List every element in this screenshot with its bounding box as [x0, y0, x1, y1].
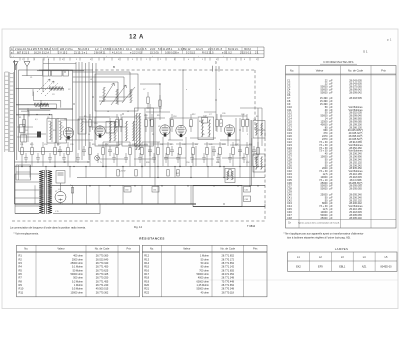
svg-text:28.770.172: 28.770.172 [221, 258, 234, 261]
header table divider [210, 47, 212, 54]
resistor RB11 [157, 148, 160, 155]
svg-text:C1: C1 [30, 77, 32, 79]
svg-text:R9: R9 [19, 283, 23, 287]
power transformer core [44, 170, 46, 214]
IF transformer S2 primary [255, 123, 257, 136]
svg-text:Spires autour de la commutatio: Spires autour de la commutation de l’osc… [298, 221, 340, 224]
svg-text:pF: pF [330, 216, 333, 220]
svg-text:V2: V2 [115, 127, 117, 129]
dial ladder rails [4, 72, 6, 152]
osc coupling arrow 1 [100, 83, 115, 105]
svg-text:9: 9 [256, 59, 257, 61]
svg-text:S2: S2 [199, 121, 201, 123]
resistor RB8 leads [116, 142, 118, 148]
svg-text:9: 9 [132, 59, 133, 61]
resistor RC5 [229, 170, 231, 177]
svg-text:5: 5 [202, 59, 203, 61]
svg-text:C18: C18 [173, 116, 176, 118]
lampes column divider [374, 252, 376, 271]
svg-text:28.770.340: 28.770.340 [96, 262, 109, 265]
padder coil 4 [133, 121, 135, 141]
capacitor CB6 [212, 146, 216, 156]
svg-text:R7: R7 [19, 276, 23, 280]
IF transformer S1 primary [201, 120, 203, 138]
capacitor CB5 [170, 146, 174, 156]
resistor RB18 leads [246, 142, 248, 148]
osc coil winding b [116, 89, 118, 104]
resistor RB1 [21, 148, 24, 155]
svg-text:Valeur: Valeur [183, 247, 190, 251]
svg-text:C61: C61 [153, 190, 156, 192]
resistances table left column divider [117, 245, 119, 296]
svg-text:2 1: 2 1 [255, 52, 259, 55]
svg-text:pF: pF [330, 90, 333, 94]
resistor RB6 [89, 148, 92, 155]
wire route upper 3 [140, 83, 160, 85]
rectifier tube V7 [55, 192, 66, 203]
supply bus y186 [52, 184, 265, 186]
svg-text:No.: No. [150, 247, 154, 251]
svg-text:7a: 7a [70, 185, 72, 187]
svg-text:R35: R35 [216, 162, 219, 164]
transformer secondary winding [48, 171, 52, 214]
resistor RA6 leads [151, 114, 153, 120]
svg-text:2: 2 [34, 59, 35, 61]
svg-text:R18: R18 [144, 276, 149, 280]
header table divider [109, 47, 111, 54]
RF shield box upper [19, 70, 73, 109]
svg-text:LAMPES: LAMPES [335, 247, 349, 251]
svg-text:4: 4 [188, 59, 189, 61]
resistor RB4 [54, 148, 57, 155]
svg-text:4 1,6 1 6: 4 1,6 1 6 [112, 52, 122, 55]
svg-text:No. de Code: No. de Code [95, 247, 110, 251]
svg-text:No. de Code: No. de Code [220, 247, 235, 251]
svg-text:70.770.448: 70.770.448 [221, 280, 234, 283]
IF transformer S3 primary [255, 157, 257, 170]
svg-text:10000 ohm: 10000 ohm [70, 291, 83, 294]
variable coupling dashed arrows [37, 79, 58, 96]
svg-text:R27: R27 [195, 144, 198, 146]
ticks across dashed boundary [212, 66, 219, 72]
svg-text:C62: C62 [245, 190, 248, 192]
resistor RA11 leads [242, 114, 244, 120]
svg-text:50 ohm: 50 ohm [201, 262, 209, 265]
svg-text:R29: R29 [222, 144, 225, 146]
svg-text:R5: R5 [19, 268, 23, 272]
svg-text:500 ohm: 500 ohm [73, 277, 83, 280]
svg-text:Valeur: Valeur [57, 247, 64, 251]
svg-text:5 2 51,5: 5 2 51,5 [186, 52, 196, 55]
svg-text:8045D-00: 8045D-00 [381, 266, 393, 269]
svg-text:S 1: S 1 [363, 50, 368, 54]
svg-text:16,2 K 51,2 A: 16,2 K 51,2 A [34, 52, 49, 55]
svg-text:R15: R15 [144, 265, 149, 269]
header table divider [57, 47, 59, 54]
IF transformer S3 can [253, 154, 265, 172]
resistances table right column divider [161, 245, 163, 296]
svg-text:6: 6 [90, 59, 91, 61]
svg-text:R25: R25 [170, 144, 173, 146]
svg-text:C14: C14 [144, 115, 147, 117]
IF transformer S2 can [253, 121, 265, 139]
svg-text:R13: R13 [144, 257, 149, 261]
resistor RB2 leads [31, 142, 33, 148]
svg-text:28.095.065: 28.095.065 [349, 188, 362, 191]
svg-text:8: 8 [118, 59, 119, 61]
svg-text:6: 6 [216, 59, 217, 61]
svg-text:R19: R19 [92, 144, 95, 146]
resistor RB3 [42, 148, 45, 155]
resistances table right column divider [211, 245, 213, 296]
capacitor CB8 [252, 146, 256, 156]
svg-text:1 Mohm: 1 Mohm [74, 284, 83, 287]
resistor RB15 [206, 148, 209, 155]
junction dot [54, 166, 55, 167]
svg-text:R10: R10 [19, 287, 24, 291]
svg-text:60000 ohm: 60000 ohm [196, 280, 209, 283]
horizontal coil Lb (hatched) [34, 103, 48, 107]
svg-text:* Ne s’applique pas aux appare: * Ne s’applique pas aux appareils ayant … [284, 232, 364, 236]
svg-text:607 E 21 5: 607 E 21 5 [17, 52, 30, 55]
resistor RB15 leads [206, 142, 208, 148]
svg-text:R22: R22 [144, 290, 149, 294]
resistor RA10 leads [220, 114, 222, 120]
top wire to dashed section [39, 69, 90, 71]
svg-text:V4: V4 [189, 126, 191, 128]
svg-text:0,5: 0,5 [202, 134, 205, 136]
resistor RB5 [67, 148, 70, 155]
antenna 1 on border [13, 62, 18, 71]
header spec table frame [10, 46, 264, 48]
resistor RA12 leads [246, 114, 248, 120]
gang riser [42, 59, 44, 93]
svg-text:V1: V1 [62, 127, 64, 129]
header table divider [257, 47, 259, 54]
resistor RB2 [31, 148, 34, 155]
resistor RB18 [246, 148, 249, 155]
wire risers mid-left [75, 62, 77, 162]
dial scale ladder rungs [5, 72, 14, 152]
svg-text:V3: V3 [158, 126, 160, 128]
svg-text:No. de Code: No. de Code [348, 68, 364, 72]
resistor RB10 leads [141, 142, 143, 148]
lampes table frame [288, 252, 398, 271]
resistor RB19 [257, 148, 260, 155]
resistor RA8 [190, 120, 193, 127]
svg-text:40 ohm: 40 ohm [201, 291, 209, 294]
tube V1 envelope [63, 128, 73, 138]
tube V3 grid electrodes [161, 125, 168, 132]
resistor RA3 leads [116, 114, 118, 120]
resistor RB16 [219, 148, 222, 155]
svg-text:T 0844: T 0844 [247, 224, 256, 228]
svg-text:0,2 Mohm: 0,2 Mohm [72, 280, 83, 283]
coil winding x82 [81, 121, 83, 132]
band switch line y114.8 [16, 114, 52, 116]
extra wire risers [24, 108, 262, 166]
svg-text:R1: R1 [19, 254, 23, 258]
filter choke wire L15 [53, 213, 100, 215]
svg-text:e 5 1 0,2: e 5 1 0,2 [222, 52, 232, 55]
extra junction dots [36, 114, 37, 115]
svg-text:L5: L5 [127, 111, 129, 113]
lampes column divider [308, 252, 310, 271]
capacitor C61 box [152, 187, 159, 193]
osc padder can 1 [95, 117, 119, 146]
svg-text:21 15, 2 e 1: 21 15, 2 e 1 [74, 52, 88, 55]
tube V3 envelope [160, 125, 170, 135]
svg-text:0,25 W: 0,25 W [119, 171, 125, 173]
svg-text:R14: R14 [144, 261, 149, 265]
resistor RB14 leads [192, 142, 194, 148]
tube V4 envelope [176, 125, 186, 135]
tube V1 grid electrodes [65, 128, 72, 135]
resistor RB9 [129, 148, 132, 155]
svg-text:CONDENSATEURS: CONDENSATEURS [323, 60, 353, 64]
svg-text:R9: R9 [157, 115, 159, 117]
resistances table right frame [142, 245, 267, 296]
tube V4 grid electrodes [177, 125, 184, 132]
wire route upper 2 [73, 77, 124, 101]
svg-text:C7: C7 [143, 89, 145, 91]
IF transformer S3 secondary [261, 157, 263, 170]
transformer terminal wires [15, 174, 39, 214]
svg-text:28.099.042: 28.099.042 [349, 91, 362, 94]
resistor RB4 leads [54, 142, 56, 148]
capacitor C63 box [244, 196, 251, 202]
mains input wires [15, 174, 39, 214]
resistor RA1 leads [23, 114, 25, 120]
svg-text:12 A: 12 A [129, 35, 144, 41]
svg-text:S3: S3 [256, 116, 258, 118]
section boundary dashed bottom [12, 220, 265, 222]
svg-text:50000: 50000 [321, 91, 329, 94]
svg-text:28.771.142: 28.771.142 [221, 266, 234, 269]
svg-text:R17: R17 [57, 144, 60, 146]
svg-text:28.093.505: 28.093.505 [349, 97, 362, 100]
svg-text:0,1: 0,1 [35, 119, 38, 121]
svg-text:R12: R12 [192, 114, 195, 116]
padder coil 1 [110, 121, 112, 141]
svg-text:R19: R19 [144, 279, 149, 283]
capacitor CB3 [108, 146, 112, 156]
svg-text:3: 3 [174, 59, 175, 61]
resistor RA4 [120, 120, 123, 127]
svg-text:R 0,5 21,5: R 0,5 21,5 [202, 52, 214, 55]
resistor RC1 [117, 170, 119, 177]
capacitor CB1 [58, 146, 62, 156]
condensateurs last row separator [286, 219, 397, 221]
svg-text:0,1 Mohm: 0,1 Mohm [72, 266, 83, 269]
svg-text:1: 1 [22, 59, 23, 61]
condensateurs table frame [286, 66, 397, 229]
svg-text:700 ohm: 700 ohm [199, 269, 209, 272]
svg-text:Prix: Prix [127, 247, 132, 251]
svg-text:2 V 15 2: 2 V 15 2 [58, 52, 68, 55]
svg-text:28.770.360: 28.770.360 [96, 255, 109, 258]
resistances table left column divider [85, 245, 87, 296]
svg-text:L3: L3 [90, 79, 92, 81]
extra tie wires [17, 108, 262, 159]
svg-text:25: 25 [152, 134, 154, 136]
svg-text:No.: No. [24, 247, 28, 251]
wire y75.7 [22, 75, 42, 77]
chassis ground bus (heavy) [15, 203, 197, 205]
svg-text:3: 3 [48, 59, 49, 61]
tube V2 grid electrodes [96, 126, 103, 133]
lampes column divider [330, 252, 332, 271]
resistor RB12 leads [167, 142, 169, 148]
resistor RB10 [141, 148, 144, 155]
resistor RB1 leads [21, 142, 23, 148]
resistor RB13 leads [179, 142, 181, 148]
header table divider [241, 47, 243, 54]
resistor RC2 [135, 170, 137, 177]
mixer can outline [135, 108, 154, 146]
svg-text:80 ohm: 80 ohm [201, 266, 209, 269]
coil L1b winding [50, 122, 52, 140]
resistor RA7 [171, 120, 174, 127]
dial lamp circuit box [193, 186, 242, 207]
svg-text:4000 ohm: 4000 ohm [198, 277, 209, 280]
coil can L4b [56, 119, 66, 144]
svg-text:1,25 Mohm: 1,25 Mohm [196, 284, 209, 287]
svg-text:B: B [113, 65, 115, 69]
osc coupling arrow 2 [111, 85, 126, 105]
horizontal coil La (hatched) [49, 87, 63, 91]
svg-text:C52: C52 [246, 162, 249, 164]
svg-text:p. 1: p. 1 [387, 38, 392, 42]
svg-text:C35: C35 [70, 144, 73, 146]
tube V4 cathode dark blob [180, 134, 183, 137]
svg-text:No.: No. [290, 68, 294, 72]
svg-text:C45: C45 [209, 144, 212, 146]
resistor RA9 leads [216, 114, 218, 120]
junction dot [141, 166, 142, 167]
svg-text:50000 ohm: 50000 ohm [196, 288, 209, 291]
capacitor C60 box [124, 187, 131, 193]
resistances table left frame [17, 245, 140, 296]
wire drops to supply buses [30, 167, 254, 178]
scan seam line [203, 279, 398, 281]
svg-text:R33: R33 [146, 162, 149, 164]
resistor RC4 [177, 170, 179, 177]
wire route upper 4 [73, 82, 118, 105]
resistances table left column divider [35, 245, 37, 296]
svg-text:15 2 (5): 15 2 (5) [150, 52, 159, 55]
header table divider [141, 47, 143, 54]
svg-text:50: 50 [88, 134, 90, 136]
svg-text:e 2,2 2 0,5: e 2,2 2 0,5 [130, 52, 142, 55]
tube V3 cathode dark blob [164, 133, 167, 136]
resistor RB11 leads [157, 142, 159, 148]
header table divider [13, 47, 15, 54]
svg-text:C10: C10 [94, 123, 97, 125]
svg-text:28.771.240: 28.771.240 [96, 284, 109, 287]
svg-text:28.770.348: 28.770.348 [221, 288, 234, 291]
IF transformer S2 secondary [261, 123, 263, 136]
resistor RB7 leads [102, 142, 104, 148]
svg-text:0,5 Mohm: 0,5 Mohm [72, 288, 83, 291]
osc padder can 2 [122, 117, 140, 146]
lead y105 [16, 104, 49, 106]
antenna 2 [24, 62, 30, 76]
svg-text:AZ1: AZ1 [362, 266, 367, 269]
grid lead y88.5 [16, 88, 64, 90]
svg-text:2 B 0,4 21: 2 B 0,4 21 [94, 52, 106, 55]
capacitor C62 box [244, 187, 251, 193]
resistor RA2 [89, 120, 92, 127]
svg-text:28.771.652: 28.771.652 [221, 255, 234, 258]
svg-text:28.095.240: 28.095.240 [349, 217, 362, 220]
svg-text:R15: R15 [30, 144, 33, 146]
main bus y166 [15, 166, 266, 168]
svg-text:C2: C2 [68, 89, 70, 91]
svg-text:1 Mohm: 1 Mohm [200, 255, 209, 258]
resistor RA12 [246, 120, 249, 127]
resistor RB8 [116, 148, 119, 155]
junction box [40, 104, 56, 108]
resistor RA3 [116, 120, 119, 127]
svg-text:5: 5 [76, 59, 77, 61]
svg-text:C31: C31 [20, 144, 23, 146]
IF transformer S4 primary [227, 171, 229, 180]
svg-text:L4b: L4b [58, 121, 61, 123]
svg-text:pF: pF [330, 187, 333, 191]
resistor RB12 [167, 148, 170, 155]
svg-text:R3: R3 [53, 130, 55, 132]
tall IF coil L10 [136, 113, 138, 150]
staircase route 1 [33, 92, 60, 108]
header table divider [182, 47, 184, 54]
tube V2 cathode dark blob [99, 134, 102, 137]
svg-text:C4: C4 [25, 130, 27, 132]
resistor RB9 leads [129, 142, 131, 148]
junction dot [219, 166, 220, 167]
svg-text:C26: C26 [222, 113, 225, 115]
small capacitors lower row [24, 153, 258, 163]
coil can x106 [106, 122, 115, 134]
svg-text:C33: C33 [44, 144, 47, 146]
IF transformer S4 can [225, 169, 235, 183]
svg-text:R1: R1 [19, 117, 21, 119]
band switch contact boxes [43, 70, 51, 76]
svg-text:25000: 25000 [321, 217, 329, 220]
capacitor block above rectifier [56, 171, 65, 183]
svg-text:28.770.362: 28.770.362 [96, 291, 109, 294]
header table divider [100, 47, 102, 54]
tube V2 envelope [95, 126, 105, 136]
svg-text:28.771.652: 28.771.652 [221, 284, 234, 287]
svg-text:C3: C3 [52, 94, 54, 96]
resistor RB17 leads [232, 142, 234, 148]
svg-text:28.023.640: 28.023.640 [96, 258, 109, 261]
svg-text:28.771.652: 28.771.652 [221, 262, 234, 265]
junction dot [21, 166, 22, 167]
resistor RB6 leads [89, 142, 91, 148]
resistor RA5 leads [145, 114, 147, 120]
section boundary dashed top [90, 69, 255, 71]
svg-text:R3: R3 [19, 261, 23, 265]
svg-text:R12: R12 [144, 254, 149, 258]
rectifier wires [52, 183, 61, 204]
resistor RA7 leads [171, 114, 173, 120]
svg-text:EK2: EK2 [296, 266, 301, 269]
svg-text:R11: R11 [19, 290, 24, 294]
header table divider [161, 47, 163, 54]
RF shield box lower [19, 109, 73, 151]
